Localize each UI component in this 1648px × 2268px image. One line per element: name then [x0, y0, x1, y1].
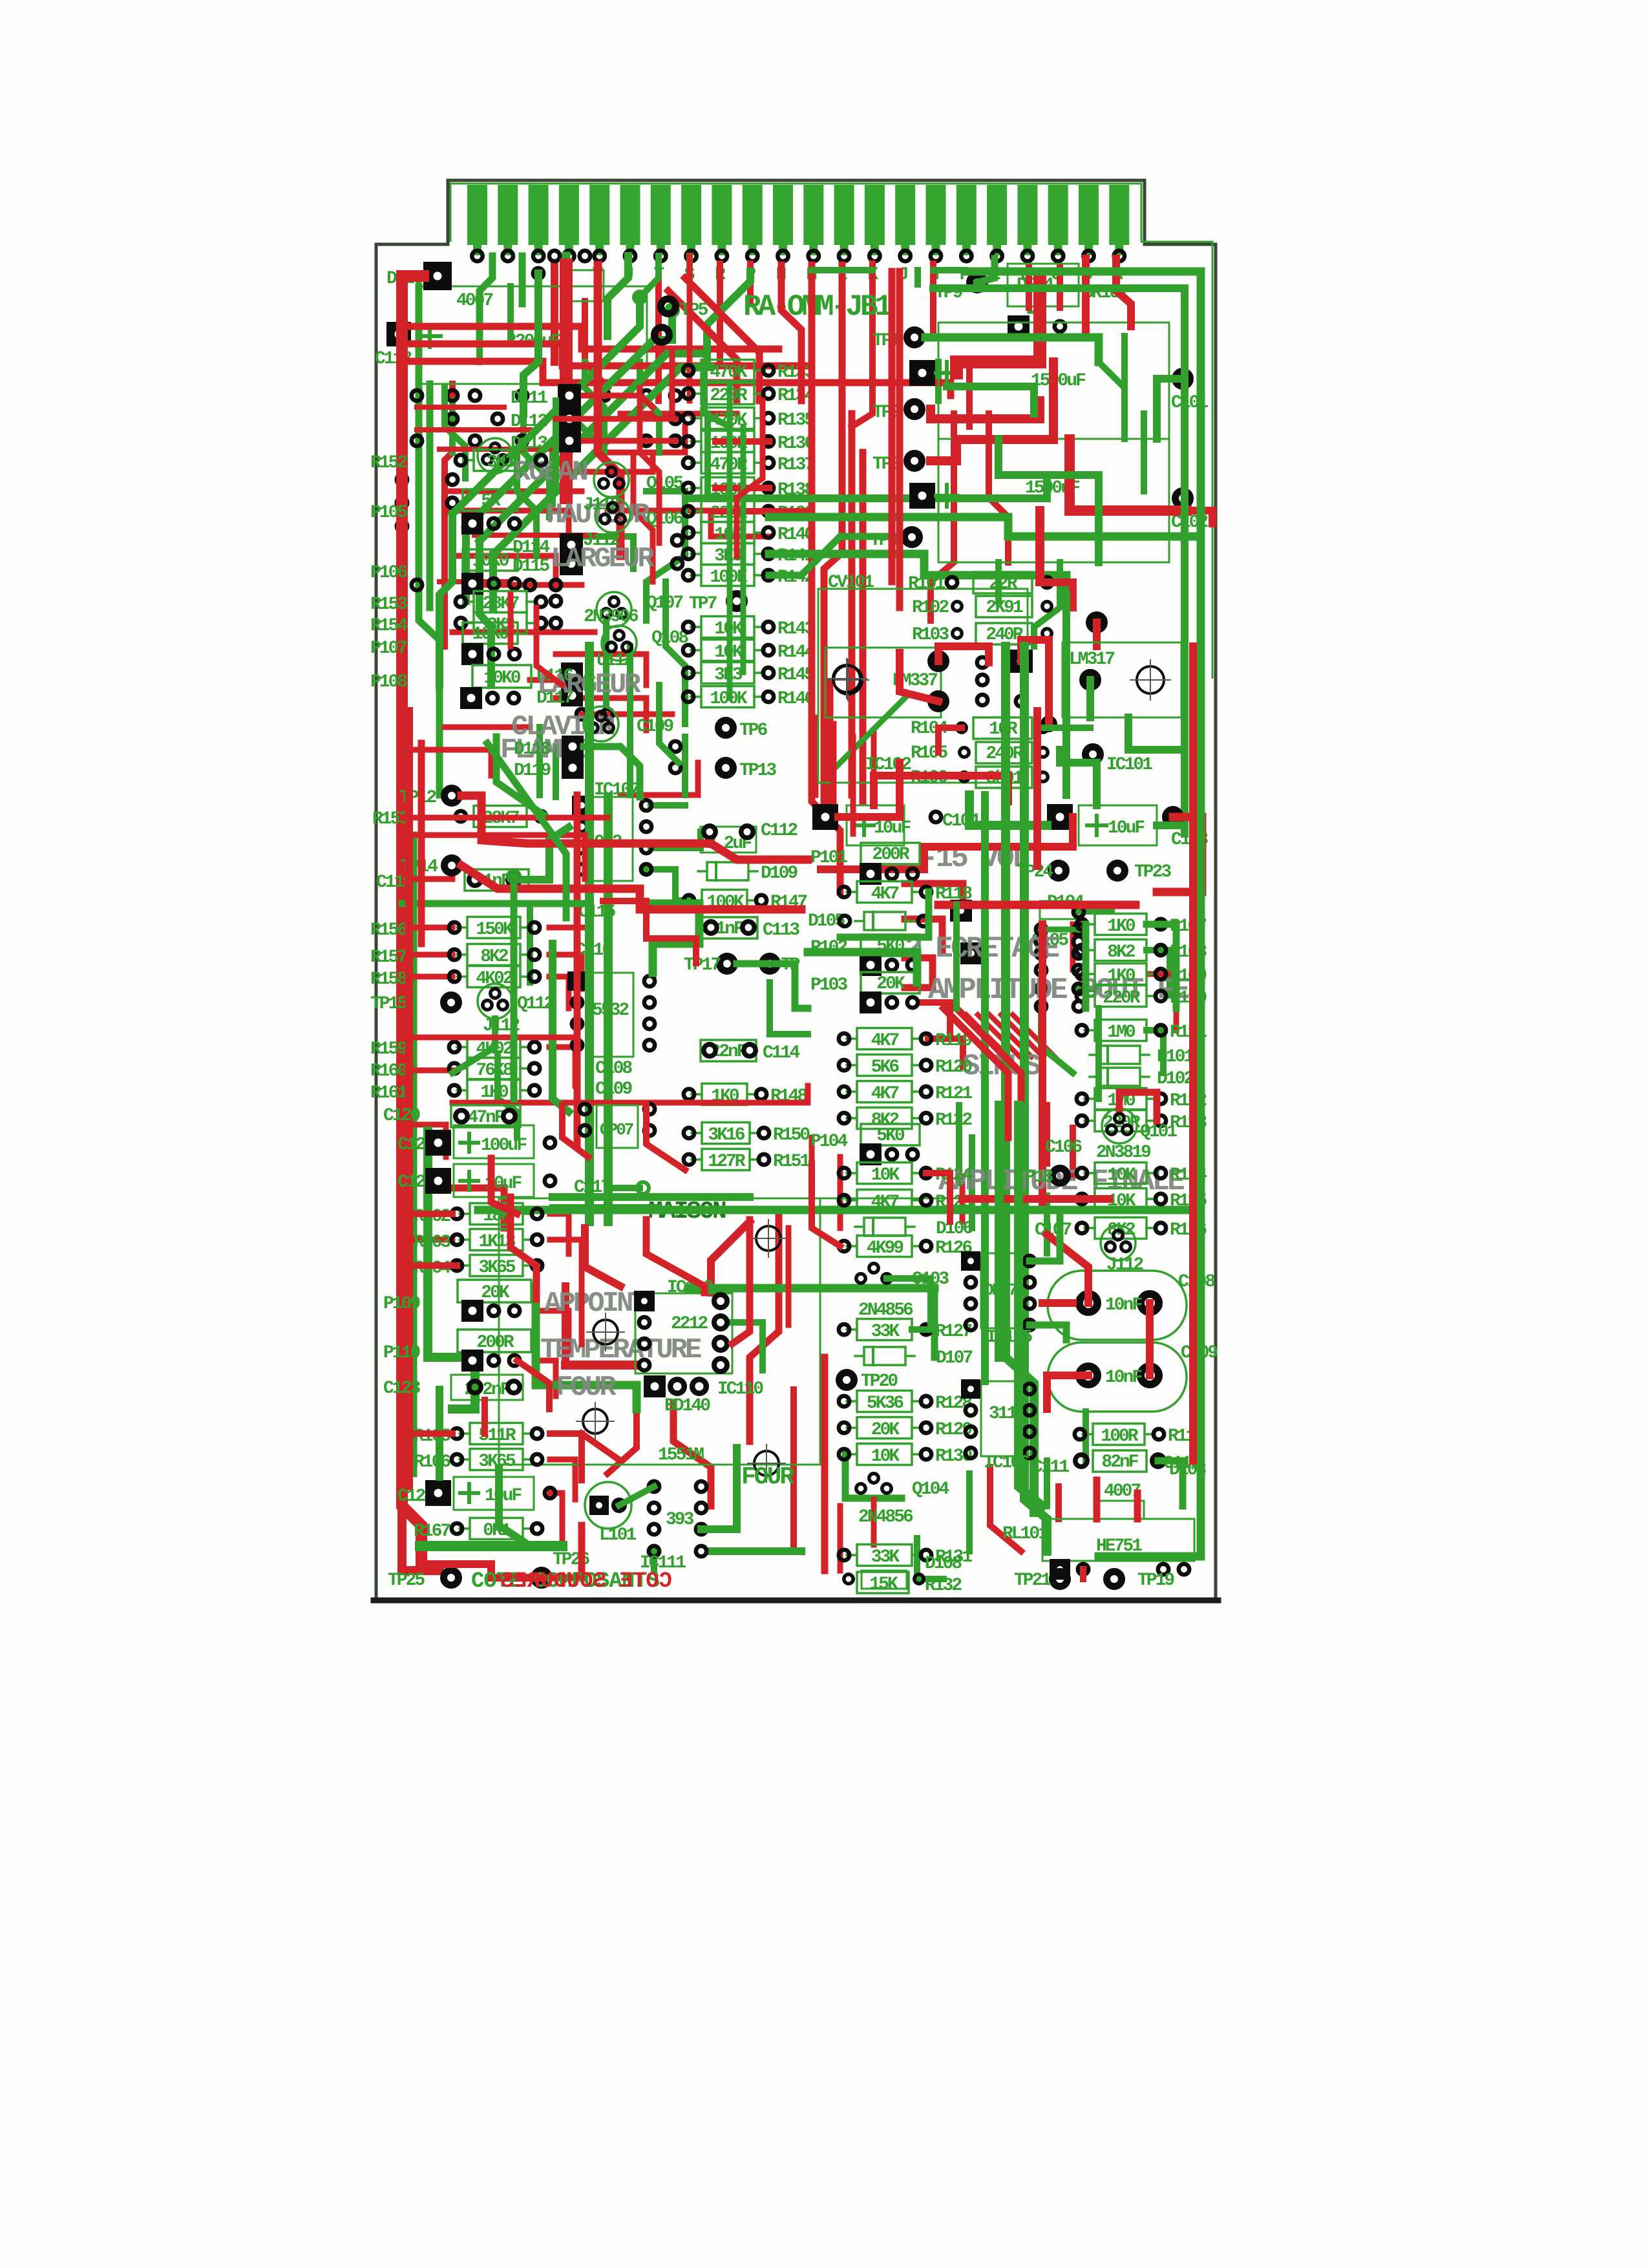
wire green oven elbow	[428, 1131, 475, 1409]
wire red tp26 l101	[542, 1525, 582, 1578]
wire red left second spine	[445, 384, 452, 646]
svg-text:R157: R157	[370, 948, 407, 968]
pads column mid	[670, 390, 681, 401]
wire green tile c fill	[627, 698, 633, 795]
pad finger 4	[564, 251, 574, 261]
op-amp IC105 OP07 outline	[981, 1253, 1021, 1328]
transistor Q107	[597, 592, 631, 627]
wire red under V	[598, 265, 620, 556]
wire green c117 v	[586, 1099, 593, 1222]
test point TP12	[445, 789, 460, 803]
svg-text:L101: L101	[599, 1525, 636, 1545]
wire red lm337 jumble	[900, 653, 938, 701]
svg-text:D108: D108	[925, 1554, 962, 1574]
wire red top tile e	[562, 1105, 588, 1157]
resistor R143	[683, 617, 815, 640]
connector finger 22	[1109, 185, 1129, 245]
test point TP23	[1110, 864, 1125, 878]
wire green diagonal bundle 2	[466, 310, 672, 527]
svg-text:LM317: LM317	[1069, 650, 1114, 670]
wire red -15v rail	[821, 817, 1073, 869]
wire green fingerW stub	[562, 256, 571, 284]
wire red mid h1	[402, 815, 607, 821]
resistor R103 240R	[953, 629, 962, 638]
connector finger 4	[559, 185, 579, 245]
wire green mid vertical 1	[585, 646, 594, 1222]
connector finger 9	[712, 185, 732, 245]
svg-text:4K02: 4K02	[476, 969, 512, 989]
wire red mid lower rows	[402, 1125, 446, 1157]
wire green c110 link	[1158, 1461, 1183, 1506]
wire green ic111 bottom	[711, 1547, 801, 1555]
wire red sinus hatch	[966, 1015, 1008, 1057]
connector finger 17	[956, 185, 977, 245]
wire green q112 tail	[452, 1019, 495, 1073]
svg-text:P107: P107	[370, 639, 407, 659]
wire green top mid weave 3	[640, 362, 659, 452]
pad finger 15	[900, 251, 911, 261]
transistor Q112	[478, 984, 512, 1019]
board outline	[376, 180, 1216, 1600]
wire green elbow right 1	[690, 482, 1047, 498]
svg-text:20K: 20K	[481, 1283, 510, 1303]
svg-text:3K3: 3K3	[487, 452, 515, 472]
resistor R125	[839, 1190, 973, 1213]
diode D106	[855, 1218, 973, 1239]
svg-text:D111: D111	[511, 388, 547, 408]
svg-text:P104: P104	[810, 1132, 847, 1152]
wire red top mid weave 3	[562, 452, 653, 472]
wire green left edge bus	[419, 286, 439, 795]
capacitor C114 22nF	[701, 1040, 756, 1061]
svg-text:FOUR: FOUR	[556, 1372, 617, 1404]
pad finger 6	[625, 251, 635, 261]
wire green c mid	[536, 727, 543, 795]
op-amp IC103 pads left	[950, 900, 972, 922]
wire green diagonal bundle 3	[480, 354, 704, 541]
resistor R140	[683, 522, 815, 546]
test point TP3	[907, 454, 922, 469]
capacitor C109 oval	[1048, 1342, 1187, 1412]
connector finger 3	[529, 185, 549, 245]
wire green center bus B	[1024, 646, 1047, 1551]
wire red diag sinus	[944, 1008, 1008, 1138]
resistor R111	[1077, 1020, 1207, 1043]
wire green ecretage elbow	[808, 952, 917, 982]
test point TP7	[730, 594, 745, 609]
svg-text:200R: 200R	[872, 845, 909, 865]
oven outline	[499, 1198, 820, 1465]
wire green tile b fill	[1121, 336, 1128, 414]
svg-text:4K7: 4K7	[871, 1084, 899, 1104]
resistor 18K	[452, 1203, 542, 1227]
wire green tile f elbows	[1030, 1215, 1060, 1261]
capacitor C110 82nF	[1093, 1450, 1146, 1472]
test point TP24	[1051, 864, 1066, 878]
svg-text:2212: 2212	[671, 1314, 708, 1334]
resistor R141	[683, 544, 815, 567]
pads scattered top left rows	[447, 390, 458, 401]
wire red f fills	[809, 1138, 815, 1202]
pad finger 8	[686, 251, 696, 261]
diode D116 square pad	[561, 662, 583, 684]
capacitor C108 oval	[1048, 1271, 1187, 1340]
svg-text:R115: R115	[1170, 1191, 1207, 1211]
svg-text:J112: J112	[1106, 1255, 1143, 1275]
op-amp IC103 pads right	[960, 942, 982, 964]
svg-text:P106: P106	[370, 563, 407, 583]
wire green left lower run	[410, 835, 417, 1474]
svg-text:TP6: TP6	[739, 721, 768, 741]
svg-text:TP21: TP21	[1014, 1571, 1051, 1591]
wire green elbow right 2	[769, 517, 1201, 536]
svg-text:10K0: 10K0	[483, 668, 520, 688]
svg-text:1500uF: 1500uF	[1031, 371, 1086, 391]
svg-text:22R: 22R	[989, 574, 1018, 594]
diode	[855, 912, 914, 930]
wire red he751	[1093, 1480, 1101, 1519]
wire red right column f	[1189, 646, 1197, 1461]
pad finger 1	[472, 251, 482, 261]
svg-text:2K91: 2K91	[986, 598, 1022, 618]
svg-text:100uF: 100uF	[481, 1136, 527, 1156]
svg-text:15K: 15K	[869, 1574, 898, 1595]
svg-text:10K0: 10K0	[472, 624, 509, 644]
relay pads	[549, 251, 560, 261]
connector finger 7	[651, 185, 671, 245]
pad finger 16	[931, 251, 941, 261]
svg-text:2N4856: 2N4856	[858, 1300, 913, 1320]
resistor R120	[839, 1055, 973, 1078]
svg-text:5K6: 5K6	[871, 1057, 900, 1077]
wire green mid hook 5	[646, 491, 685, 620]
square pad plus lower	[909, 483, 935, 509]
resistor R135	[683, 408, 815, 431]
wire green q103 link	[887, 1278, 931, 1330]
svg-text:BD140: BD140	[664, 1396, 710, 1416]
test point TP14	[445, 858, 460, 873]
connector finger 5	[589, 185, 609, 245]
wire green d ic103 links	[1041, 1008, 1073, 1073]
resistor R137	[683, 452, 814, 476]
wire red tl rows 2	[417, 405, 504, 410]
wire green H F link	[933, 267, 964, 273]
svg-text:RA-OMM-JB1: RA-OMM-JB1	[743, 290, 891, 324]
resistor R107	[1077, 914, 1207, 937]
mounting hole oven 1	[593, 1320, 618, 1344]
svg-text:P101: P101	[810, 848, 847, 868]
wire green tl vert 5	[704, 414, 711, 491]
svg-text:311: 311	[989, 1404, 1017, 1424]
wire red left spine 3	[418, 743, 425, 944]
resistor R145	[683, 662, 815, 686]
wire green tile b weave	[935, 362, 942, 401]
wire red tl drop 3	[633, 452, 653, 582]
svg-text:10uF: 10uF	[1108, 818, 1145, 838]
wire green bottom rail	[420, 1541, 562, 1551]
resistor R133	[683, 360, 815, 383]
wire red r138 link	[715, 485, 769, 491]
svg-text:TP15: TP15	[370, 994, 407, 1014]
test point TP5	[661, 299, 676, 314]
resistor R106 3k01	[976, 767, 1032, 788]
relay pads	[1050, 1559, 1070, 1580]
svg-text:393: 393	[666, 1510, 694, 1530]
wire red c mid rows	[445, 725, 530, 730]
diode D109	[698, 862, 798, 884]
connector finger 1	[467, 185, 487, 245]
svg-text:IC110: IC110	[717, 1379, 763, 1399]
svg-text:470K: 470K	[710, 363, 747, 383]
wire red top mid weave 6	[607, 511, 769, 536]
wire green c119 chain	[514, 827, 569, 880]
resistor 3K65	[452, 1449, 542, 1472]
wire green relay links	[476, 301, 483, 362]
wire red top mid weave 5	[445, 511, 569, 536]
svg-text:82nF: 82nF	[1101, 1452, 1138, 1472]
connector finger 8	[681, 185, 701, 245]
svg-text:1551M: 1551M	[658, 1445, 704, 1465]
wire green f fills	[956, 1105, 962, 1183]
wire red df04 feed 1	[1026, 268, 1032, 308]
wire red bd140 jumble	[565, 1361, 637, 1370]
wire green TP1 link	[925, 337, 1099, 362]
wire green q region v	[666, 582, 685, 724]
svg-text:1K0: 1K0	[1107, 917, 1136, 937]
svg-text:TP25: TP25	[388, 1571, 425, 1591]
wire green M L link	[812, 267, 872, 273]
resistor R130	[839, 1444, 973, 1467]
resistor R119	[839, 1028, 973, 1052]
transistor Q104 pads	[869, 1474, 878, 1483]
test point TP13	[719, 761, 734, 776]
svg-text:D102: D102	[1157, 1069, 1194, 1089]
wire red staircase 1	[410, 326, 779, 349]
resistor R142	[683, 565, 815, 588]
resistor 28K7	[456, 806, 546, 829]
resistor R114	[1077, 1163, 1207, 1186]
svg-text:D118: D118	[514, 739, 551, 759]
module IC110 outline	[635, 1293, 732, 1373]
wire red long horizontal R125	[938, 901, 1136, 909]
wire green l101 link	[619, 1487, 654, 1505]
svg-text:33K: 33K	[871, 1322, 900, 1342]
wire green diagonal bundle 1	[452, 297, 640, 514]
wire green elbow right 3	[769, 554, 1066, 595]
wire green E drop	[977, 259, 995, 282]
svg-text:D112: D112	[511, 412, 547, 432]
svg-text:4K7: 4K7	[871, 1192, 899, 1213]
wire red stair tile c	[603, 901, 696, 963]
svg-text:P109: P109	[383, 1294, 420, 1314]
svg-text:4K99: 4K99	[867, 1238, 903, 1258]
svg-text:R117: R117	[1168, 1426, 1204, 1447]
wire red top area fill 3	[640, 388, 659, 543]
wire red left col links	[402, 1211, 452, 1217]
wire red center bus	[1033, 711, 1041, 866]
svg-text:C120: C120	[383, 1106, 420, 1126]
wire green under U	[607, 256, 628, 336]
IC108 pads	[567, 971, 587, 991]
resistor 3K3	[456, 450, 546, 473]
wire red q region h1	[478, 582, 582, 588]
svg-text:R102: R102	[912, 598, 949, 618]
IC110 pads	[634, 1291, 655, 1311]
pad finger 22	[1114, 251, 1125, 261]
capacitor C118 square pad	[386, 322, 411, 346]
wire green bottom f	[917, 1538, 944, 1579]
svg-text:D109: D109	[761, 864, 798, 884]
wire red oven feeds	[585, 1228, 620, 1286]
wire red center bus2	[1039, 924, 1046, 1202]
svg-text:C113: C113	[763, 920, 799, 940]
capacitor bank outline upper	[938, 323, 1169, 439]
resistor 28K7	[456, 591, 546, 615]
transistor Q105	[594, 462, 629, 497]
svg-text:4007: 4007	[456, 291, 492, 311]
wire green center bus C	[981, 795, 989, 1267]
wire green tile d fill	[953, 905, 960, 1008]
square pad plus upper	[909, 360, 935, 386]
wire red bottom left	[421, 1564, 542, 1578]
svg-text:R150: R150	[773, 1125, 810, 1145]
svg-text:1M0: 1M0	[1107, 1023, 1136, 1043]
wire red top mid weave 2	[595, 427, 685, 452]
wire red pair 1380	[889, 271, 896, 582]
wire red r136 link	[715, 438, 769, 445]
capacitor bank outline lower	[938, 439, 1169, 562]
IC107 pads	[572, 796, 591, 815]
svg-text:P105: P105	[370, 503, 407, 523]
resistor 1K0	[449, 1080, 540, 1103]
resistor R148	[684, 1084, 808, 1107]
pad finger 14	[869, 251, 880, 261]
wire green maison bus2	[688, 1284, 935, 1293]
svg-text:5K36: 5K36	[867, 1394, 903, 1414]
svg-text:IC101: IC101	[1106, 755, 1152, 775]
diode D117 square pad	[561, 684, 583, 706]
svg-text:R114: R114	[1170, 1165, 1207, 1185]
pad col d118	[670, 741, 681, 752]
wire red l101 area	[582, 1434, 620, 1461]
svg-text:8K2: 8K2	[480, 947, 509, 967]
diode D120 square pad	[423, 262, 452, 290]
pad finger 17	[961, 251, 971, 261]
svg-text:IC105: IC105	[986, 1328, 1032, 1348]
transistor Q108	[602, 626, 637, 661]
wire red mid fill pads row	[556, 416, 675, 422]
wire red left spine	[402, 276, 423, 1564]
svg-text:R160: R160	[370, 1061, 407, 1081]
capacitor C112 2.2uF	[701, 827, 756, 853]
resistor 150K	[449, 917, 540, 940]
svg-text:4K7: 4K7	[871, 1031, 899, 1051]
wire red c108 feeds	[1042, 1299, 1073, 1307]
svg-text:1nF: 1nF	[715, 919, 744, 939]
connector finger 14	[865, 185, 885, 245]
test point TP21	[1053, 1572, 1068, 1587]
svg-text:R101: R101	[908, 574, 945, 594]
svg-text:R161: R161	[370, 1083, 407, 1103]
svg-text:R152: R152	[370, 453, 407, 473]
resistor R124	[839, 1163, 973, 1186]
svg-text:76K8: 76K8	[476, 1061, 512, 1081]
pad finger 5	[595, 251, 605, 261]
pad finger 18	[991, 251, 1002, 261]
wire green d118 link	[584, 747, 640, 797]
test point TP9	[970, 275, 985, 290]
svg-text:P108: P108	[370, 672, 407, 692]
svg-text:D107: D107	[936, 1348, 972, 1368]
mounting hole IC101	[1137, 666, 1164, 694]
svg-text:R122: R122	[935, 1110, 972, 1130]
wire red tile b down cols	[931, 414, 954, 620]
diode D101	[1090, 1046, 1194, 1067]
wire green top mid weave 1	[523, 414, 549, 517]
wire red B down	[1082, 259, 1090, 336]
wire red TP12 elbow	[461, 796, 808, 860]
svg-text:Q104: Q104	[912, 1479, 949, 1500]
wire green c117 link	[607, 1185, 640, 1191]
resistor 1K13	[452, 1229, 542, 1253]
wire red oven diag	[711, 1222, 750, 1293]
wire red spine branch TP25	[402, 1506, 439, 1571]
wire red top mid weave 1	[620, 411, 737, 417]
wire green top mid weave 4	[449, 401, 456, 452]
resistor R121	[839, 1081, 973, 1105]
wire green top fill 1	[704, 362, 730, 427]
pad big right of R101	[1090, 615, 1104, 630]
wire red mid fill 2	[508, 595, 514, 646]
wire green pair maison top	[553, 1193, 750, 1201]
diode D103 box	[1099, 1501, 1144, 1519]
svg-text:10K: 10K	[871, 1447, 900, 1467]
wire green right rail inner	[933, 288, 1185, 834]
wire red right of column 1	[812, 265, 840, 892]
wire red TP5 diag 2	[668, 291, 737, 401]
wire red top mid weave 7	[452, 556, 556, 582]
wire green ic111 elbow	[701, 1448, 737, 1529]
pad finger 3	[533, 251, 544, 261]
capacitor C103 10uF	[1047, 804, 1073, 830]
test point TP6	[719, 721, 734, 736]
svg-text:2N3906: 2N3906	[584, 607, 639, 627]
test point TP20	[840, 1373, 854, 1388]
wire red d region rows	[905, 884, 963, 915]
wire red mid h2	[402, 835, 585, 879]
IC105 pads	[961, 1251, 980, 1271]
svg-text:2N4856: 2N4856	[858, 1507, 913, 1527]
svg-text:3K65: 3K65	[478, 1452, 515, 1472]
svg-text:TP13: TP13	[739, 761, 776, 781]
wire green U T flows	[640, 256, 659, 297]
wire green lm317	[1086, 680, 1094, 717]
IC104 pads	[580, 1104, 590, 1114]
resistor R112	[1077, 1088, 1207, 1112]
wire red K drop	[852, 264, 872, 427]
plus symbol C118	[419, 334, 441, 338]
transistor Q101	[1102, 1108, 1137, 1143]
svg-text:RUBAN: RUBAN	[514, 456, 587, 489]
wire red c103 right	[1157, 817, 1202, 892]
svg-text:33K: 33K	[871, 1547, 900, 1567]
svg-text:3K65: 3K65	[478, 1258, 515, 1278]
svg-text:20K: 20K	[871, 1420, 900, 1440]
test point TP15	[444, 995, 459, 1010]
wire red center drop 1609	[1035, 511, 1044, 582]
connector finger 12	[803, 185, 823, 245]
regulator IC101 outline	[1062, 642, 1181, 717]
